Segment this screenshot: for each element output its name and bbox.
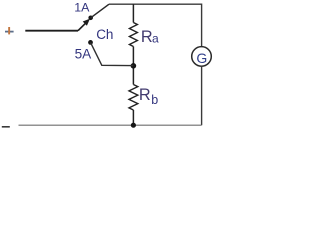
wire top rail [109, 4, 202, 46]
battery + terminal [5, 27, 14, 34]
resistor Rb [129, 85, 138, 110]
battery - terminal [2, 126, 10, 128]
label Rb [139, 86, 158, 107]
svg-text:b: b [151, 93, 158, 107]
svg-text:R: R [139, 86, 151, 104]
node junction dot (Ra/Rb/5A tap) [131, 63, 137, 69]
wire contact 1A to top rail [91, 4, 109, 18]
wire from + terminal [25, 30, 78, 32]
label Ra [141, 28, 159, 46]
wire G to bottom rail [201, 66, 203, 125]
svg-text:Ch: Ch [96, 27, 113, 42]
svg-text:5A: 5A [75, 47, 93, 62]
wire bottom rail [19, 124, 202, 126]
wire Ra to Rb [132, 47, 134, 85]
galvanometer G [192, 47, 212, 67]
svg-text:R: R [141, 28, 153, 46]
wire 5A contact to junction [91, 42, 134, 65]
wire Rb to bottom rail [132, 110, 134, 125]
switch blade (arm with arrow) [78, 19, 90, 31]
wire top rail to Ra [132, 4, 134, 22]
node bottom junction dot [131, 123, 136, 128]
svg-text:1A: 1A [74, 1, 90, 15]
resistor Ra [129, 23, 137, 47]
svg-text:a: a [152, 31, 159, 45]
node 5A contact dot [88, 40, 93, 45]
svg-text:G: G [196, 50, 207, 66]
node 1A contact dot [88, 15, 93, 20]
